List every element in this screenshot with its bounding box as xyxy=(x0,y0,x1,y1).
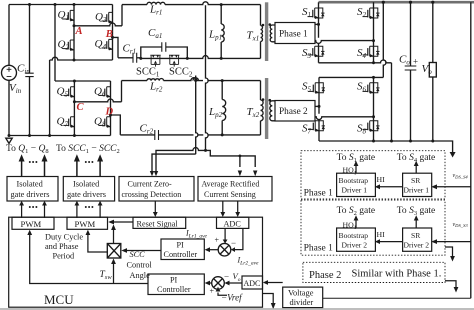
transistor S7 xyxy=(308,121,325,132)
transformer Tx1 core xyxy=(265,2,268,61)
svg-text:+: + xyxy=(210,287,215,296)
svg-text:PWM: PWM xyxy=(75,219,96,229)
arrow SR2 to S3 gate xyxy=(415,220,417,229)
box SR driver 2 xyxy=(403,228,432,251)
capacitor Cr1 line left xyxy=(118,57,133,59)
output minus rail xyxy=(319,141,453,153)
svg-text:SCC: SCC xyxy=(130,250,146,259)
load Vo resistor xyxy=(429,63,436,78)
main bottom rail xyxy=(9,135,111,137)
wire ADC1 to summing1 minus xyxy=(234,228,243,249)
left input rail upper xyxy=(8,5,10,66)
svg-text:ADC: ADC xyxy=(244,279,261,288)
svg-text:and Phase: and Phase xyxy=(45,242,79,251)
main tank line phase1 xyxy=(141,56,261,59)
capacitor Cin column lower xyxy=(29,77,31,136)
wire node D jog xyxy=(111,115,121,135)
capacitor Cin plates xyxy=(25,73,33,76)
bridge1 leg B column xyxy=(112,5,114,61)
inductor Lp2 xyxy=(222,81,226,135)
rectifier2 node bottom wire with hop xyxy=(315,117,374,120)
svg-text:A: A xyxy=(75,26,83,37)
arrow bootstrap2 to S2 gate xyxy=(355,220,357,229)
svg-text:crossing Detection: crossing Detection xyxy=(122,190,182,199)
sense staircase to averaging xyxy=(206,150,256,167)
box MCU xyxy=(9,217,263,307)
rectifier1 S2 S4 column xyxy=(373,2,375,63)
wire Vref into summing2 xyxy=(218,293,227,296)
svg-text:Controller: Controller xyxy=(157,285,191,294)
transistor S8 xyxy=(363,121,380,132)
svg-text:Angle: Angle xyxy=(130,271,151,280)
arrow after dashed box phase2 xyxy=(445,281,456,288)
svg-text:PI: PI xyxy=(170,276,178,285)
rectifier1 minus rail with hop xyxy=(319,60,392,63)
rectifier1 node bottom wire with hop xyxy=(315,41,374,44)
arrow vDS_S4 to SR1 xyxy=(436,186,471,188)
svg-text:Phase 1: Phase 1 xyxy=(304,243,334,253)
arrow summing2 to PI2 xyxy=(209,282,212,284)
svg-text:divider: divider xyxy=(290,298,314,307)
svg-text:Similar with Phase 1.: Similar with Phase 1. xyxy=(352,268,442,279)
svg-text:Driver 2: Driver 2 xyxy=(342,240,368,249)
capacitor Co column xyxy=(410,2,412,141)
input top rail xyxy=(9,4,113,6)
svg-text:−: − xyxy=(231,238,236,248)
box current zero-crossing detection xyxy=(119,177,194,202)
svg-text:PWM: PWM xyxy=(21,219,42,229)
svg-text:Voltage: Voltage xyxy=(288,289,314,298)
transistor Q1 xyxy=(63,10,74,21)
transistor Q5 xyxy=(63,87,74,98)
svg-text:vDS_S4: vDS_S4 xyxy=(453,173,469,179)
svg-text:Phase 1: Phase 1 xyxy=(279,30,308,40)
rectifier2 S6 S8 column xyxy=(373,77,375,141)
svg-text:Driver 1: Driver 1 xyxy=(404,186,430,195)
Tsw bus into multiplier bottom xyxy=(113,263,115,284)
arrow vDS_S3 to SR2 xyxy=(436,241,471,243)
box Phase 2 secondary xyxy=(275,101,315,122)
svg-text:Period: Period xyxy=(53,252,76,261)
transistor S5 xyxy=(308,83,325,94)
sense vertical long with hops xyxy=(206,5,209,150)
svg-text:+: + xyxy=(215,236,220,245)
capacitor Co plates xyxy=(405,66,417,70)
multiplier left output to PWM2 xyxy=(27,228,243,283)
svg-text:C: C xyxy=(77,102,85,113)
transistor Q7 xyxy=(63,117,74,128)
capacitor Cin column upper xyxy=(29,5,31,74)
svg-text:Bootstrap: Bootstrap xyxy=(339,176,369,185)
bottom page border gray xyxy=(0,308,474,310)
box reset signal xyxy=(133,217,186,228)
source Vin plus minus xyxy=(7,67,12,77)
svg-text:Duty Cycle: Duty Cycle xyxy=(45,233,83,242)
sense line lower to CZD xyxy=(152,154,196,172)
wire tank riser to top xyxy=(121,5,123,26)
bridge1 bottom rail with hop xyxy=(50,57,113,60)
sense branch arrow stub xyxy=(239,156,241,167)
transformer Tx2 core xyxy=(265,78,268,139)
svg-text:MCU: MCU xyxy=(44,292,74,307)
svg-text:Reset Signal: Reset Signal xyxy=(137,219,179,228)
arrow PI1 to multiplier xyxy=(126,250,161,252)
svg-text:−Vref: −Vref xyxy=(221,293,243,303)
load Vo column xyxy=(432,2,434,141)
capacitor Cr2 line left xyxy=(120,134,155,136)
svg-text:Phase 1: Phase 1 xyxy=(304,189,334,199)
wire phase2 tank riser xyxy=(121,81,123,102)
sense vertical from Lr2 node xyxy=(196,76,198,155)
phase1 minus return vertical xyxy=(391,63,393,141)
transformer Tx2 secondary xyxy=(270,101,275,121)
svg-text:SR: SR xyxy=(411,231,421,240)
box bootstrap driver 2 xyxy=(337,228,376,251)
box bootstrap driver 1 xyxy=(337,173,376,196)
arrow multiplier up xyxy=(113,229,115,244)
svg-text:HI: HI xyxy=(377,230,386,239)
svg-text:B: B xyxy=(105,29,113,40)
output plus rail thick xyxy=(319,1,474,4)
box ADC 2 xyxy=(242,276,263,289)
transistor S4 xyxy=(363,46,380,57)
summing junction 1 xyxy=(218,243,231,256)
wire MCU edge down output xyxy=(263,294,274,305)
ground xyxy=(6,138,12,143)
inductor Lr1 xyxy=(147,2,165,4)
box ADC 1 xyxy=(217,217,249,228)
arrow ADC1 to summing1 plus xyxy=(224,228,226,240)
box average rectified current sensing xyxy=(198,177,272,202)
arrows PWM to isolated drivers xyxy=(19,201,102,218)
box PI controller 1 xyxy=(161,239,204,260)
wire node B jog xyxy=(113,37,119,57)
svg-text:Average Rectified: Average Rectified xyxy=(202,180,260,189)
svg-text:Isolated: Isolated xyxy=(17,180,44,189)
feedback right edge vertical xyxy=(470,2,472,298)
wire bridge1 return vertical xyxy=(49,60,51,136)
box SR driver 1 xyxy=(403,173,432,196)
sense line to CZD xyxy=(156,148,206,172)
tank line phase2 xyxy=(122,78,261,81)
return line phase2 xyxy=(159,134,261,136)
source Vin circle xyxy=(2,65,17,80)
transistor S1 xyxy=(308,8,325,19)
svg-text:HI: HI xyxy=(377,175,386,184)
svg-text:Driver 2: Driver 2 xyxy=(404,240,430,249)
transistor Q2 xyxy=(63,40,74,51)
svg-text:Controller: Controller xyxy=(164,250,198,259)
transistor Q8 xyxy=(100,117,111,128)
arrow bootstrap1 to S1 gate xyxy=(355,165,357,173)
svg-text:SR: SR xyxy=(411,176,421,185)
bridge2 leg D column xyxy=(110,81,112,136)
svg-text:Phase 2: Phase 2 xyxy=(309,270,341,281)
arrow ADC2 to summing2 xyxy=(229,282,243,284)
wire Ca1 branch xyxy=(141,47,188,58)
svg-text:Driver 1: Driver 1 xyxy=(342,186,368,195)
arrow SR1 to S4 gate xyxy=(415,165,417,173)
transistor Q4 xyxy=(102,39,113,50)
box PWM 2 xyxy=(67,217,108,229)
arrow summing1 to PI1 xyxy=(209,249,218,251)
transistor S6 xyxy=(363,83,380,94)
inductor Lp1 xyxy=(221,5,224,59)
switch SCC1 xyxy=(150,55,160,66)
svg-text:Current Zero-: Current Zero- xyxy=(128,180,173,189)
transformer Tx2 primary loop xyxy=(261,81,264,135)
svg-text:+: + xyxy=(413,57,418,67)
rectifier2 node top wire xyxy=(315,105,319,107)
transformer Tx1 secondary xyxy=(270,25,275,42)
transistor S2 xyxy=(363,8,380,19)
box isolated gate drivers 1 xyxy=(7,177,58,202)
arrow SR2 to bootstrap2 xyxy=(379,241,403,243)
Tsw bus to PWM1 xyxy=(30,234,148,284)
svg-text:PI: PI xyxy=(177,241,185,250)
capacitor Cr2 plates xyxy=(155,130,159,140)
arrows sense lines into averaging xyxy=(238,171,242,177)
svg-text:Bootstrap: Bootstrap xyxy=(339,231,369,240)
bridge1 leg A column xyxy=(73,5,75,61)
bridge2 top rail xyxy=(55,80,111,82)
summing junction 2 xyxy=(212,277,225,290)
tank top rail phase1 xyxy=(122,2,261,5)
ellipsis marks lower xyxy=(29,206,94,208)
inductor Lr2 xyxy=(147,79,164,81)
svg-text:gate drivers: gate drivers xyxy=(67,190,106,199)
multiplier box xyxy=(107,244,121,259)
svg-text:Phase 2: Phase 2 xyxy=(279,107,308,117)
arrow SR1 to bootstrap1 xyxy=(379,186,403,188)
rectifier1 node top wire xyxy=(315,23,319,25)
dashed box phase1 drivers B xyxy=(301,200,445,255)
arrow divider to ADC2 xyxy=(267,282,283,284)
wire node C horizontal with hop at D leg xyxy=(74,99,121,102)
switch SCC2 xyxy=(169,55,179,66)
svg-text:vDS_S3: vDS_S3 xyxy=(453,222,469,228)
svg-text:ADC: ADC xyxy=(224,219,242,228)
arrow reset to PWM2 xyxy=(108,220,132,244)
junction dots tank and rectifier xyxy=(139,1,434,158)
svg-text:−: − xyxy=(224,272,229,282)
phase2 plus feed vertical with hop xyxy=(383,2,386,77)
wire node A horizontal with hop at B leg xyxy=(74,23,122,26)
svg-text:Control: Control xyxy=(127,261,153,270)
arrow after dashed box B xyxy=(445,247,453,257)
capacitor Cr1 plates xyxy=(133,53,137,63)
dashed box phase2 similar xyxy=(303,262,445,282)
arrow CZD to reset signal xyxy=(150,171,258,218)
box PWM 1 xyxy=(12,217,54,229)
ellipsis marks upper xyxy=(29,161,94,163)
arrow output minus rail down xyxy=(450,152,456,158)
svg-text:Current Sensing: Current Sensing xyxy=(204,190,256,199)
arrows sensing to ADC xyxy=(222,201,224,213)
wire bridge2 feed vertical xyxy=(54,5,56,82)
svg-text:D: D xyxy=(105,107,114,118)
dashed box phase1 drivers A xyxy=(301,151,445,199)
transformer Tx1 primary loop xyxy=(261,5,263,59)
transistor S3 xyxy=(308,46,325,57)
phase2 drain rail xyxy=(319,76,383,78)
left input rail lower xyxy=(8,80,10,135)
gate drive arrows to Q xyxy=(19,154,104,176)
wire divider to output sense xyxy=(323,297,471,299)
transistor Q6 xyxy=(100,87,111,98)
box voltage divider xyxy=(283,287,323,308)
svg-text:gate drivers: gate drivers xyxy=(11,190,50,199)
capacitor Ca1 plates xyxy=(162,42,166,51)
transistor Q3 xyxy=(102,12,113,23)
svg-text:Isolated: Isolated xyxy=(73,180,100,189)
box Phase 1 secondary xyxy=(275,23,315,44)
rectifier1 S1 S3 column xyxy=(318,2,320,63)
box PI controller 2 xyxy=(148,274,204,295)
bridge2 leg C column xyxy=(73,81,75,136)
sense hop on Lr2 line xyxy=(193,78,199,81)
rectifier2 S5 S7 column xyxy=(318,77,320,141)
box isolated gate drivers 2 xyxy=(63,177,114,202)
arrows sense lines into CZD xyxy=(150,171,154,176)
junction dots input stage xyxy=(8,3,115,137)
capacitor Cr1 line right xyxy=(137,57,141,59)
